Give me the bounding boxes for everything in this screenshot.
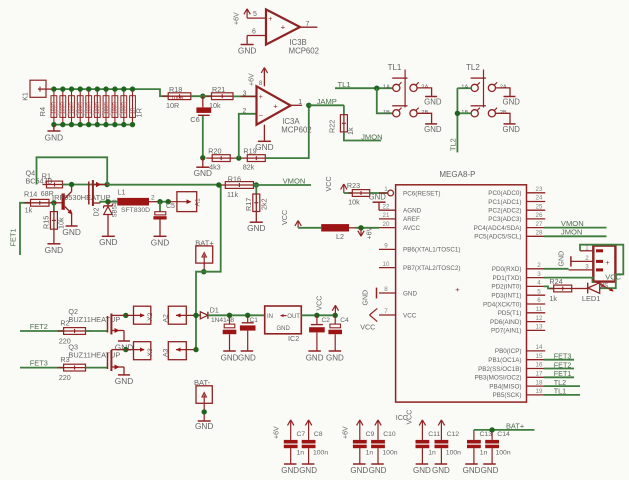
resistor R3	[58, 367, 92, 369]
ground below C7	[284, 463, 297, 465]
svg-text:PC3(ADC3): PC3(ADC3)	[488, 216, 521, 223]
svg-text:PD6(AIND): PD6(AIND)	[490, 319, 522, 326]
svg-text:1B: 1B	[383, 110, 390, 116]
resistor R12 (bank)	[123, 89, 125, 125]
capacitor C6	[202, 96, 204, 107]
pin 20 AVCC	[379, 227, 396, 229]
svg-text:GND: GND	[424, 125, 442, 134]
svg-text:GND: GND	[369, 192, 387, 201]
node R16 left	[216, 182, 221, 187]
svg-text:C2: C2	[322, 317, 331, 324]
svg-text:8: 8	[384, 286, 388, 293]
pin 11 PD5(T1)	[527, 312, 546, 314]
pin 26 PC3(ADC3)	[527, 218, 546, 220]
svg-text:13: 13	[536, 324, 543, 331]
svg-text:C7: C7	[297, 431, 306, 438]
pin 6 PD4(XCK/T0)	[527, 303, 546, 305]
wire C6 to R20 node	[202, 116, 204, 158]
svg-text:6: 6	[252, 28, 256, 35]
wire D1 to IC2	[208, 314, 265, 316]
svg-text:28: 28	[536, 230, 543, 237]
svg-text:2: 2	[537, 262, 541, 269]
node R16 right / R17	[254, 182, 259, 187]
junction node bank top 7	[103, 86, 108, 91]
svg-text:8: 8	[259, 81, 263, 87]
wire RXD to SL1 pin3	[544, 268, 569, 270]
ground below C10	[371, 463, 384, 465]
svg-text:20: 20	[383, 221, 390, 228]
supply +6V down at AVCC	[360, 228, 362, 236]
wire VCC loop around SL1	[580, 245, 623, 289]
wire R23 to RESET pin	[370, 192, 388, 194]
supply +6V arrows	[359, 420, 361, 440]
wire TL2 net vertical	[456, 88, 458, 152]
wire TL2 net	[544, 385, 580, 387]
svg-text:AVCC: AVCC	[403, 225, 420, 232]
svg-text:GND: GND	[247, 223, 265, 233]
pin 17 PB3(MOSI/OC2)	[527, 376, 546, 378]
svg-text:FET2: FET2	[30, 322, 48, 331]
wire PD2 to R24	[544, 286, 554, 288]
pin 18 PB4(MISO)	[527, 385, 546, 387]
op-amp IC3B MCP602	[266, 9, 300, 44]
wire TXD down	[544, 278, 593, 283]
ground at pin8	[376, 288, 378, 299]
capacitor C10	[371, 440, 385, 444]
node TL2 1B	[455, 111, 460, 116]
svg-text:VMON: VMON	[283, 176, 306, 185]
svg-text:SFT830D: SFT830D	[121, 207, 150, 214]
svg-text:24: 24	[536, 195, 543, 202]
svg-text:PD4(XCK/T0): PD4(XCK/T0)	[483, 301, 522, 308]
ground below R17	[255, 212, 257, 222]
svg-text:TL2: TL2	[554, 378, 566, 387]
svg-text:VCC: VCC	[407, 410, 414, 425]
connector A2	[168, 306, 186, 324]
svg-text:GND: GND	[62, 227, 80, 237]
wire BAT+ down to FET bus	[196, 272, 204, 350]
svg-text:PB3(MOSI/OC2): PB3(MOSI/OC2)	[475, 375, 522, 382]
svg-text:VCC: VCC	[360, 322, 375, 331]
wire Q4 collector to gate rail	[63, 184, 108, 186]
pin 23 PC0(ADC0)	[527, 192, 546, 194]
wire R19 to IC3A output	[265, 105, 309, 158]
pin 10 PB7(XTAL2/TOSC2)	[379, 267, 396, 269]
svg-text:PB2(SS/OC1B): PB2(SS/OC1B)	[478, 366, 521, 373]
svg-text:TL1: TL1	[554, 387, 566, 396]
svg-text:R22: R22	[328, 120, 337, 133]
wire R18-R21	[191, 95, 211, 97]
svg-text:PD5(T1): PD5(T1)	[498, 310, 522, 317]
svg-text:C14: C14	[497, 431, 510, 438]
IC3B +6V supply pin5	[246, 9, 248, 18]
pin 4 PD2(INT0)	[527, 285, 546, 287]
svg-text:2: 2	[243, 108, 247, 115]
svg-text:A3: A3	[162, 348, 169, 357]
svg-text:GND: GND	[45, 133, 63, 143]
ground Q4 emitter	[71, 214, 73, 226]
junction node bank top 2	[60, 86, 65, 91]
svg-text:GND: GND	[559, 251, 566, 267]
resistor R20	[206, 157, 236, 159]
svg-text:100n: 100n	[496, 450, 511, 457]
svg-text:10: 10	[383, 261, 390, 268]
pin 7 VCC	[379, 314, 396, 316]
wire IC2 OUT / VCC	[301, 314, 335, 316]
resistor R9 (bank)	[96, 89, 98, 125]
svg-text:1: 1	[384, 186, 388, 193]
svg-text:+: +	[605, 260, 609, 267]
svg-text:VCC: VCC	[403, 312, 417, 319]
svg-text:4k3: 4k3	[209, 163, 221, 172]
svg-text:BAT+: BAT+	[506, 421, 524, 430]
svg-text:GND: GND	[195, 421, 213, 431]
svg-text:JMON: JMON	[361, 132, 383, 141]
connector K1	[30, 80, 46, 97]
pin 27 PC4(ADC4/SDA)	[527, 227, 546, 229]
svg-text:7: 7	[384, 308, 388, 315]
svg-text:GND: GND	[503, 125, 521, 134]
svg-text:TL2: TL2	[466, 63, 480, 72]
pin 16 PB2(SS/OC1B)	[527, 368, 546, 370]
svg-text:100n: 100n	[313, 450, 328, 457]
node L1/C5 a	[157, 199, 162, 204]
ground below C8	[302, 463, 315, 465]
resistor R8 (bank)	[88, 89, 90, 125]
svg-text:FET3: FET3	[554, 352, 572, 361]
wire VMON net	[254, 184, 312, 186]
svg-text:R6: R6	[66, 109, 71, 115]
svg-text:82k: 82k	[243, 163, 255, 172]
wire TL1 net	[544, 394, 580, 396]
svg-text:GND: GND	[503, 98, 521, 107]
svg-text:L2: L2	[336, 232, 344, 241]
LED LED1	[587, 283, 589, 294]
wire L2 to AVCC	[355, 227, 379, 229]
resistor R7 (bank)	[79, 89, 81, 125]
ground - resistor bank	[53, 125, 55, 131]
IC3B output pin7	[300, 26, 317, 28]
connector X2	[134, 306, 151, 324]
svg-text:MCP602: MCP602	[281, 125, 311, 134]
svg-text:12: 12	[536, 315, 543, 322]
svg-text:R1: R1	[42, 172, 51, 181]
junction node bank top 4	[78, 86, 83, 91]
resistor R5 (bank)	[62, 89, 64, 125]
svg-text:X3: X3	[147, 348, 154, 357]
node AVCC/+6V	[358, 225, 363, 230]
wire - resistor bank bottom rail	[54, 124, 133, 126]
node MOSFET source rail	[105, 182, 110, 187]
svg-text:R12: R12	[119, 107, 124, 116]
svg-text:GND: GND	[99, 237, 117, 247]
resistor R16	[219, 184, 259, 186]
junction node bank top 1	[51, 86, 56, 91]
svg-text:R15: R15	[42, 216, 51, 229]
node L1/C5 b	[166, 199, 171, 204]
node IC3A output / JAMP	[306, 103, 311, 108]
svg-text:C12: C12	[447, 431, 460, 438]
svg-text:FET3: FET3	[30, 359, 48, 368]
pin 3 SL1	[569, 269, 594, 271]
node Q2 drain	[123, 313, 128, 318]
svg-text:FET1: FET1	[554, 369, 572, 378]
supply ICC arrows	[421, 420, 423, 440]
svg-text:R10: R10	[101, 107, 106, 116]
pin 2 SL1	[571, 260, 593, 262]
svg-text:22: 22	[383, 203, 390, 210]
wire pin2 riser	[239, 114, 257, 158]
svg-text:FET2: FET2	[554, 360, 572, 369]
node C14 BAT+	[489, 427, 494, 432]
svg-text:R9: R9	[92, 109, 97, 115]
connector X3	[134, 342, 151, 360]
svg-text:1R: 1R	[135, 107, 144, 117]
wire R22 to JMON	[344, 132, 381, 141]
svg-text:R5: R5	[58, 109, 63, 115]
svg-text:1A: 1A	[383, 85, 390, 91]
pin 12 PD6(AIND)	[527, 321, 546, 323]
svg-text:GND: GND	[255, 142, 273, 152]
ground below C11	[416, 463, 429, 465]
svg-text:220: 220	[59, 373, 71, 382]
capacitor C15	[229, 315, 231, 324]
svg-text:R11: R11	[110, 107, 115, 115]
junction node bank top 10	[130, 86, 135, 91]
ground Q3 source	[118, 374, 130, 376]
svg-text:PD0(RXD): PD0(RXD)	[492, 266, 522, 273]
svg-text:10k: 10k	[348, 197, 360, 206]
pin 1 PC6(RESET)	[379, 192, 388, 194]
capacitor C8	[302, 440, 316, 444]
junction node bank top 9	[121, 86, 126, 91]
resistor R13 (bank)	[132, 89, 134, 125]
svg-text:R7: R7	[75, 109, 80, 115]
svg-text:GND: GND	[350, 466, 368, 475]
svg-text:X2: X2	[147, 312, 154, 321]
wire FET2 net	[20, 330, 64, 332]
ground at SL1 pin2	[570, 256, 572, 266]
pin 8 GND	[379, 292, 396, 294]
svg-text:2k2: 2k2	[259, 198, 268, 210]
resistor R15	[53, 203, 55, 212]
svg-text:+: +	[273, 102, 278, 111]
svg-text:PB4(MISO): PB4(MISO)	[489, 383, 521, 390]
node C1 top	[245, 313, 250, 318]
svg-text:PC0(ADC0): PC0(ADC0)	[488, 190, 521, 197]
svg-text:MCP602: MCP602	[289, 46, 319, 55]
svg-text:PD1(TXD): PD1(TXD)	[492, 275, 521, 282]
ground below D2	[107, 215, 109, 237]
op-amp IC3A MCP602	[257, 86, 291, 124]
wire R21 to IC3A pin3	[233, 95, 257, 97]
ground below C2	[308, 350, 321, 352]
connector A1	[177, 192, 197, 212]
pin 24 PC1(ADC1)	[527, 201, 546, 203]
ground at R20 left	[202, 158, 204, 167]
svg-text:LED1: LED1	[582, 294, 601, 303]
svg-text:21: 21	[383, 212, 390, 219]
svg-text:1n: 1n	[297, 450, 305, 457]
svg-text:15: 15	[536, 353, 543, 360]
svg-text:100R: 100R	[171, 96, 184, 102]
svg-text:GND: GND	[45, 245, 63, 255]
svg-text:GND: GND	[306, 353, 324, 362]
svg-text:GND: GND	[326, 353, 344, 362]
svg-text:+6V: +6V	[249, 73, 256, 86]
svg-text:C6: C6	[190, 115, 200, 124]
svg-text:+: +	[455, 285, 460, 294]
svg-text:IC2: IC2	[288, 334, 299, 343]
pin 15 PB1(OC1A)	[527, 359, 546, 361]
svg-text:25: 25	[536, 203, 543, 210]
wire TL1 net	[335, 87, 393, 89]
svg-text:C5: C5	[166, 203, 175, 210]
resistor R18	[162, 95, 197, 97]
wire FET3 net	[544, 359, 574, 361]
svg-text:R21: R21	[212, 85, 225, 94]
supply +6V arrows	[290, 420, 292, 440]
wire L1 to A1	[158, 201, 171, 203]
svg-text:7: 7	[306, 21, 310, 28]
svg-text:MEGA8-P: MEGA8-P	[439, 170, 475, 179]
svg-text:19: 19	[536, 388, 543, 395]
svg-text:6: 6	[537, 297, 541, 304]
svg-text:IN: IN	[267, 314, 273, 320]
svg-text:GND: GND	[238, 353, 256, 362]
wire FET1 net	[544, 376, 574, 378]
svg-text:R8: R8	[84, 109, 89, 115]
svg-text:3: 3	[537, 271, 541, 278]
svg-text:2: 2	[151, 195, 155, 202]
resistor R4 (bank)	[53, 89, 55, 125]
svg-text:10R: 10R	[166, 101, 179, 110]
IC MEGA8-P body	[396, 185, 527, 402]
wire - resistor bank top rail	[54, 89, 168, 96]
svg-text:AGND: AGND	[403, 208, 422, 215]
resistor R21	[206, 95, 240, 97]
svg-text:11k: 11k	[227, 190, 238, 199]
svg-text:FET1: FET1	[9, 228, 18, 246]
svg-text:GND: GND	[432, 466, 450, 475]
svg-text:D1: D1	[210, 307, 219, 314]
node D2 top	[105, 199, 110, 204]
svg-text:GND: GND	[277, 326, 291, 332]
node BAT+	[201, 269, 206, 274]
svg-text:R14: R14	[24, 189, 37, 198]
pin 5 PD3(INT1)	[527, 294, 546, 296]
node R20/R19/IC3A pin2	[236, 155, 241, 160]
connector SL1	[593, 246, 615, 282]
node C15 top	[227, 313, 232, 318]
ground below C9	[353, 463, 366, 465]
svg-text:1: 1	[298, 99, 302, 106]
pin 13 PD7(AIN1)	[527, 329, 546, 331]
node BAT- gnd	[202, 409, 207, 414]
ground below C15	[223, 350, 236, 352]
resistor R11 (bank)	[114, 89, 116, 125]
svg-text:5: 5	[253, 11, 257, 18]
svg-text:GND: GND	[424, 98, 442, 107]
svg-text:C11: C11	[428, 431, 440, 438]
svg-text:1N4148: 1N4148	[211, 317, 234, 324]
svg-text:+: +	[281, 22, 286, 31]
wire +BAT top loop	[37, 157, 108, 184]
capacitor C11	[416, 440, 430, 444]
pin 3 PD1(TXD)	[527, 277, 546, 279]
svg-text:9: 9	[384, 243, 388, 250]
node R1/gate	[69, 182, 74, 187]
ground below C1	[241, 350, 254, 352]
svg-text:BUZ11HEATUP: BUZ11HEATUP	[68, 315, 120, 324]
svg-text:+: +	[259, 94, 263, 101]
node C4 top	[333, 313, 338, 318]
svg-text:GND: GND	[115, 376, 133, 386]
pin 9 PB6(XTAL1/TOSC1)	[379, 248, 396, 250]
svg-text:GND: GND	[403, 290, 417, 297]
svg-text:IRF9530HEATUP: IRF9530HEATUP	[52, 193, 111, 202]
svg-text:PC4(ADC4/SDA): PC4(ADC4/SDA)	[474, 225, 522, 232]
svg-text:PC1(ADC1): PC1(ADC1)	[488, 199, 521, 206]
svg-text:PB1(OC1A): PB1(OC1A)	[488, 357, 521, 364]
svg-text:23: 23	[536, 186, 543, 193]
svg-text:2: 2	[585, 255, 589, 262]
svg-text:3: 3	[585, 263, 589, 270]
svg-text:VCC: VCC	[317, 296, 324, 311]
resistor R6 (bank)	[71, 89, 73, 125]
svg-text:GND: GND	[363, 290, 370, 306]
ground TL2 2B	[496, 113, 511, 123]
svg-text:PB6(XTAL1/TOSC1): PB6(XTAL1/TOSC1)	[403, 247, 461, 254]
svg-text:–: –	[259, 113, 263, 120]
svg-text:PB7(XTAL2/TOSC2): PB7(XTAL2/TOSC2)	[403, 265, 461, 272]
ground below C13	[465, 463, 478, 465]
svg-text:R23: R23	[347, 181, 360, 190]
svg-text:A1: A1	[195, 198, 202, 207]
svg-text:PC5(ADC5/SCL): PC5(ADC5/SCL)	[474, 234, 521, 241]
IC3A +6V supply	[263, 70, 265, 86]
pin 22 AGND	[379, 209, 396, 211]
ground below BAT-	[198, 420, 211, 422]
ground Q2 source	[123, 338, 125, 341]
svg-text:27: 27	[536, 221, 543, 228]
wire TL1 to 1B	[377, 88, 393, 113]
svg-text:PC6(RESET): PC6(RESET)	[403, 190, 440, 197]
svg-text:R20: R20	[208, 147, 221, 156]
svg-text:1n: 1n	[480, 450, 488, 457]
svg-text:JAMP: JAMP	[317, 97, 337, 106]
connector A3	[168, 342, 186, 360]
svg-text:100n: 100n	[382, 450, 397, 457]
svg-text:1k: 1k	[25, 206, 33, 215]
ground TL1 2A	[417, 88, 432, 96]
svg-text:11: 11	[536, 306, 543, 313]
svg-text:18: 18	[536, 379, 543, 386]
svg-text:1n: 1n	[366, 450, 374, 457]
svg-text:D2: D2	[94, 207, 101, 216]
svg-text:26: 26	[536, 212, 543, 219]
ground below C12	[435, 463, 448, 465]
svg-text:OUT: OUT	[287, 314, 300, 320]
svg-text:VMON: VMON	[561, 219, 584, 228]
pin 1 SL1	[580, 250, 593, 252]
svg-text:PD2(INT0): PD2(INT0)	[491, 284, 521, 291]
ground below C5	[159, 220, 161, 237]
wire JAMP net	[309, 104, 344, 106]
svg-text:VCC: VCC	[605, 273, 621, 282]
svg-text:VCC: VCC	[324, 176, 333, 191]
wire FET2 net	[544, 368, 574, 370]
